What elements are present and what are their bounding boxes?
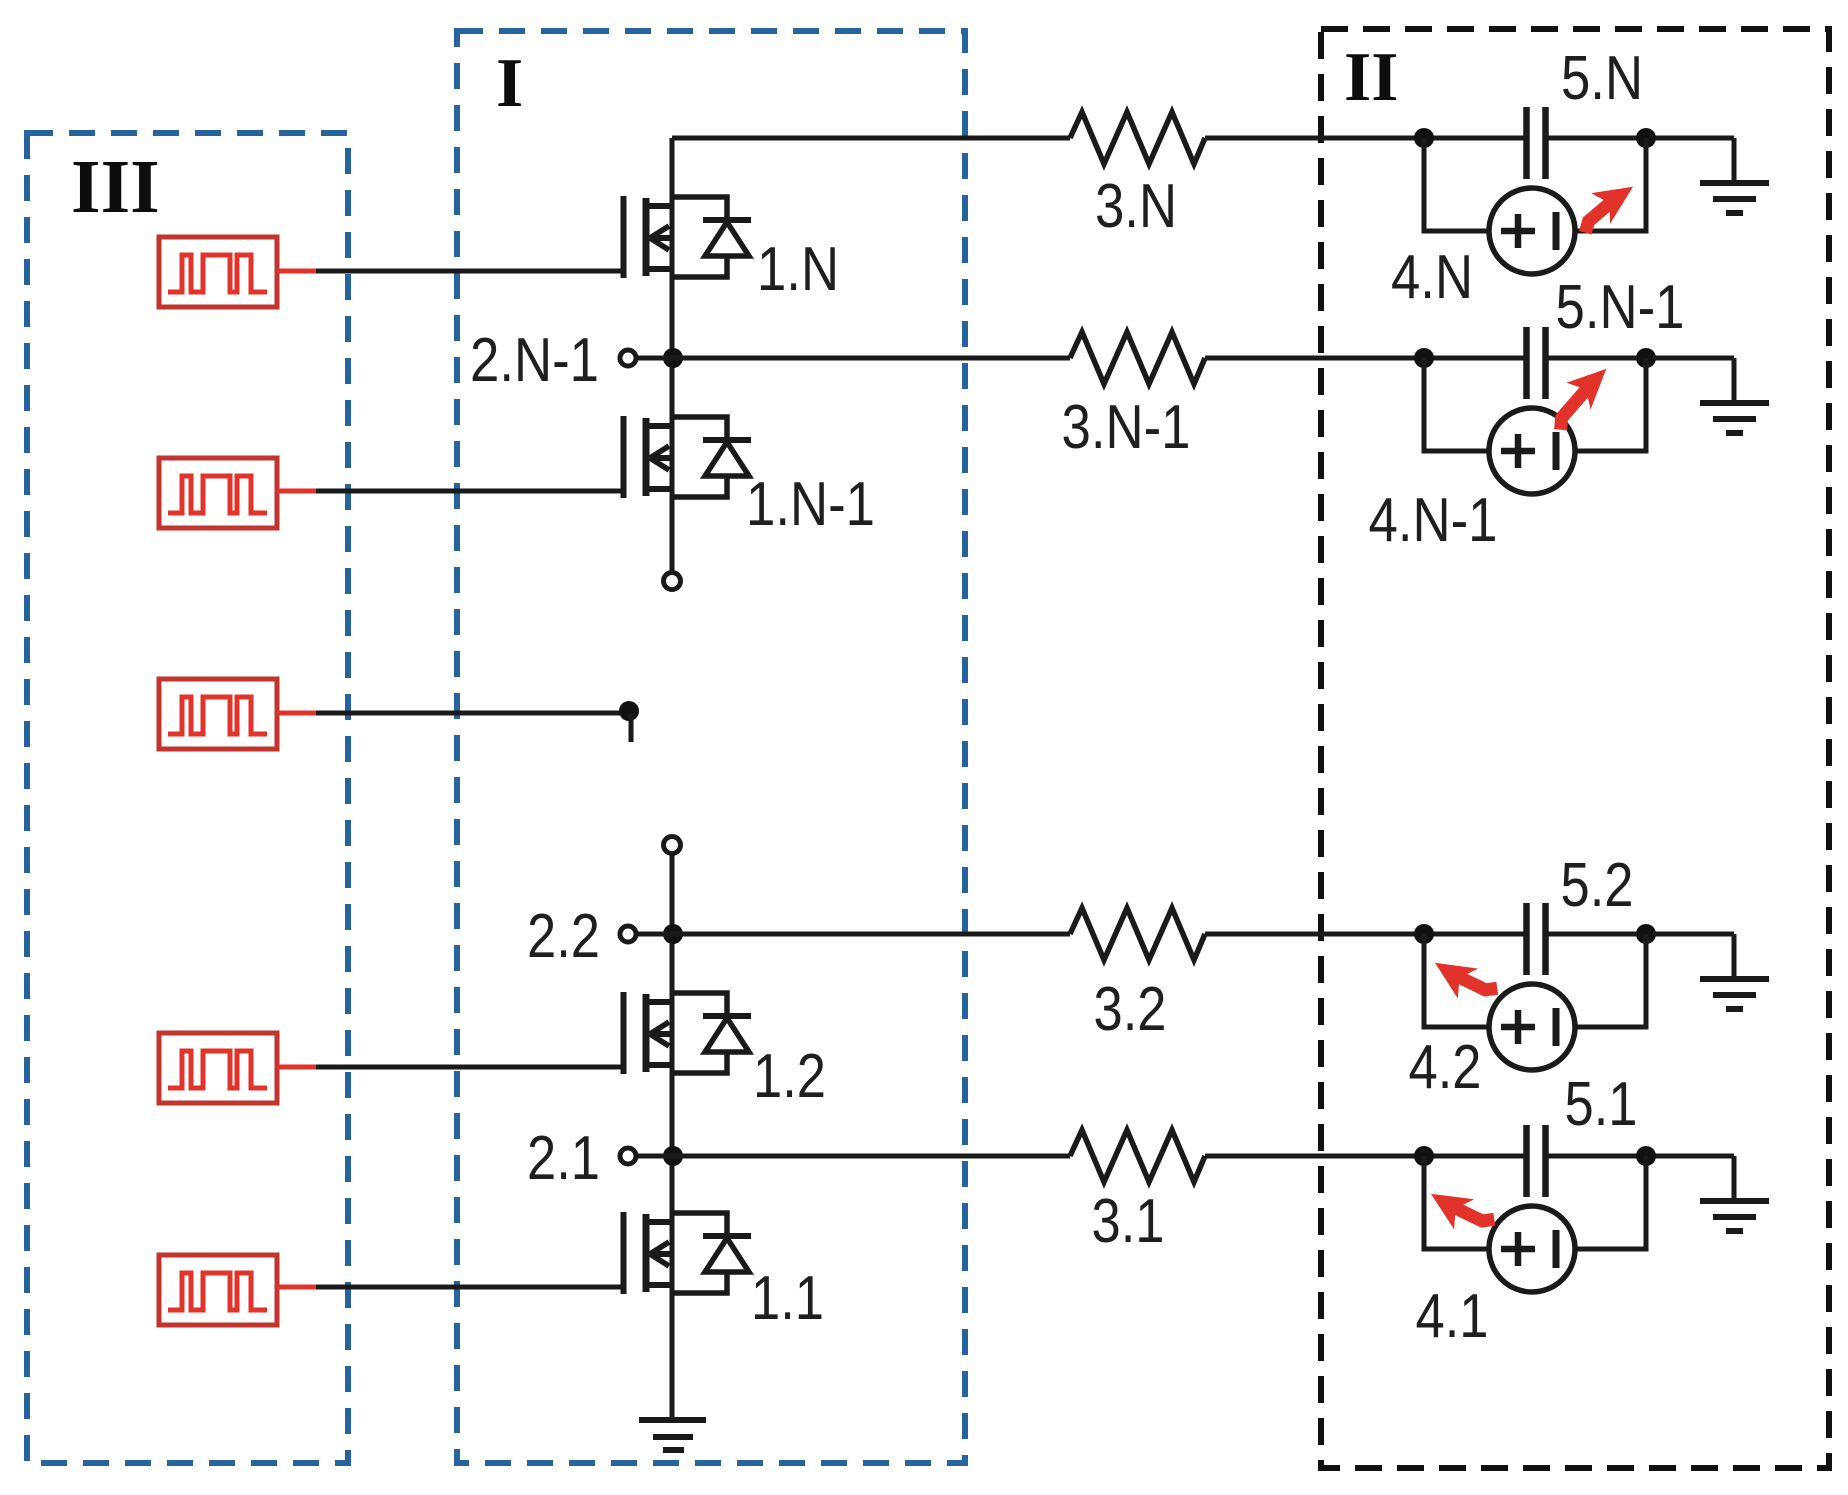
wire row N capacitor to ground <box>1546 136 1734 141</box>
current source 4.N <box>1489 188 1575 274</box>
svg-text:1.N: 1.N <box>757 235 839 304</box>
wire row N-1 capacitor to ground <box>1546 356 1734 361</box>
wire PG3 output <box>316 711 626 716</box>
wire drain bus lower (to ground) <box>670 854 675 1420</box>
junction row N left <box>1414 128 1434 148</box>
node 2.2 terminal <box>620 926 636 942</box>
pulse source PG5 <box>159 1255 277 1325</box>
svg-text:3.N-1: 3.N-1 <box>1062 393 1191 462</box>
section box III (pulse generator group) <box>27 133 348 1463</box>
wire row 1 to resistor <box>636 1154 1070 1159</box>
wire drain bus upper (1.N to 1.N-1 leg) <box>670 138 675 572</box>
svg-text:2.2: 2.2 <box>527 902 600 971</box>
svg-text:4.N-1: 4.N-1 <box>1369 486 1498 555</box>
terminal below 1.N-1 <box>664 573 681 590</box>
capacitor 5.2 <box>1527 903 1546 975</box>
wire row 2 to resistor <box>636 932 1070 937</box>
wire row N from drain of 1.N <box>672 136 1070 141</box>
junction row N-1 left <box>1414 348 1434 368</box>
wire PG4 red lead <box>277 1065 317 1070</box>
wire current source loop 4.N-1 <box>1424 358 1646 451</box>
transistor 1.N-1 <box>624 416 752 498</box>
junction row N-1 right <box>1636 348 1656 368</box>
ground row 2 <box>1700 934 1769 1009</box>
junction node 2.1 <box>663 1146 683 1166</box>
junction node 2.N-1 <box>663 348 683 368</box>
capacitor 5.N <box>1527 107 1546 179</box>
wire row N resistor to capacitor <box>1205 136 1526 141</box>
ground row N-1 <box>1700 358 1769 433</box>
svg-text:4.2: 4.2 <box>1409 1033 1482 1102</box>
wire current source loop 4.2 <box>1424 934 1646 1027</box>
svg-text:II: II <box>1344 39 1398 116</box>
svg-text:III: III <box>71 145 160 229</box>
wire gate of 1.N <box>316 269 624 274</box>
ground (bottom of switch chain) <box>639 1420 706 1450</box>
wire current source loop 4.1 <box>1424 1156 1646 1249</box>
wire PG1 red lead <box>277 269 317 274</box>
svg-text:3.N: 3.N <box>1095 172 1177 241</box>
ground row 1 <box>1700 1156 1769 1231</box>
section box II (cell group) <box>1321 29 1829 1468</box>
wire current source loop 4.N <box>1424 138 1646 231</box>
svg-text:5.2: 5.2 <box>1561 851 1634 920</box>
current direction arrow at 4.1 <box>1429 1186 1494 1240</box>
wire gate of 1.N-1 <box>316 489 624 494</box>
svg-text:4.1: 4.1 <box>1416 1282 1489 1351</box>
svg-text:5.N: 5.N <box>1561 44 1643 113</box>
node 2.N-1 terminal <box>620 350 636 366</box>
transistor 1.N <box>624 196 752 278</box>
wire PG5 red lead <box>277 1285 317 1290</box>
junction row N right <box>1636 128 1656 148</box>
current source 4.1 <box>1489 1206 1575 1292</box>
pulse source PG1 <box>159 237 277 307</box>
svg-text:1.1: 1.1 <box>751 1264 824 1333</box>
svg-text:2.N-1: 2.N-1 <box>470 326 599 395</box>
wire PG3 red lead <box>277 711 317 716</box>
wire row 2 capacitor to ground <box>1546 932 1734 937</box>
junction row 1 left <box>1414 1146 1434 1166</box>
resistor 3.1 <box>1070 1130 1205 1182</box>
wire gate of 1.1 <box>316 1285 624 1290</box>
terminal dot of PG3 wire <box>619 701 639 742</box>
svg-text:3.1: 3.1 <box>1092 1187 1165 1256</box>
current source 4.2 <box>1489 984 1575 1070</box>
current direction arrow at 4.N <box>1572 180 1635 233</box>
pulse source PG4 <box>159 1033 277 1103</box>
current direction arrow at 4.2 <box>1433 955 1497 1009</box>
wire PG2 red lead <box>277 489 317 494</box>
terminal above 2.2 <box>664 837 681 854</box>
junction row 2 left <box>1414 924 1434 944</box>
transistor 1.2 <box>624 992 752 1074</box>
wire row 2 resistor to capacitor <box>1205 932 1526 937</box>
svg-text:5.1: 5.1 <box>1565 1070 1638 1139</box>
wire row 1 resistor to capacitor <box>1205 1154 1526 1159</box>
svg-text:3.2: 3.2 <box>1094 975 1167 1044</box>
resistor 3.N <box>1070 112 1205 164</box>
pulse source PG3 <box>159 679 277 749</box>
node 2.1 terminal <box>620 1148 636 1164</box>
pulse source PG2 <box>159 458 277 528</box>
resistor 3.N-1 <box>1070 332 1205 384</box>
capacitor 5.1 <box>1527 1125 1546 1197</box>
ground row N <box>1700 138 1769 213</box>
svg-text:1.2: 1.2 <box>753 1042 826 1111</box>
junction row 1 right <box>1636 1146 1656 1166</box>
junction node 2.2 <box>663 924 683 944</box>
svg-text:I: I <box>496 45 523 122</box>
svg-text:4.N: 4.N <box>1391 243 1473 312</box>
section box I (switch group) <box>457 31 965 1463</box>
wire row N-1 resistor to capacitor <box>1205 356 1526 361</box>
capacitor 5.N-1 <box>1527 327 1546 399</box>
svg-text:1.N-1: 1.N-1 <box>746 470 875 539</box>
wire row 1 capacitor to ground <box>1546 1154 1734 1159</box>
svg-text:2.1: 2.1 <box>527 1124 600 1193</box>
junction row 2 right <box>1636 924 1656 944</box>
transistor 1.1 <box>624 1212 752 1294</box>
wire row N-1 to resistor <box>636 356 1070 361</box>
current direction arrow at 4.N-1 <box>1543 364 1610 429</box>
current source 4.N-1 <box>1489 408 1575 494</box>
wire gate of 1.2 <box>316 1065 624 1070</box>
svg-text:5.N-1: 5.N-1 <box>1556 273 1685 342</box>
resistor 3.2 <box>1070 908 1205 960</box>
